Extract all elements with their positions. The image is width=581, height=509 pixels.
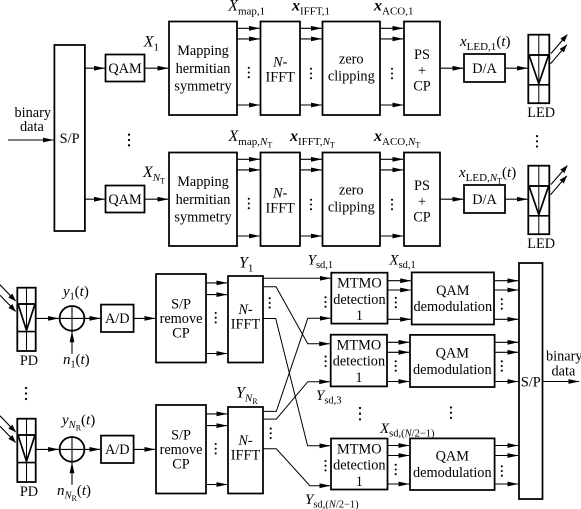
svg-text:CP: CP xyxy=(413,79,431,95)
svg-text:symmetry: symmetry xyxy=(174,210,232,226)
label N-IFFT TX 2 xyxy=(265,185,295,216)
dots N-IFFT2 outputs xyxy=(270,428,272,440)
block S/P serial-parallel TX xyxy=(54,45,85,231)
svg-text:A/D: A/D xyxy=(105,311,130,327)
label Mapping 2 xyxy=(174,174,232,225)
label N-IFFT TX 1 xyxy=(265,54,295,85)
block MTMO detection 1 a xyxy=(331,273,387,324)
wire S/P-removeCP1 to N-IFFT1 line 3 xyxy=(206,353,227,355)
block QAM demodulation 3 xyxy=(410,438,495,490)
svg-text:N-: N- xyxy=(237,302,253,318)
svg-text:detection: detection xyxy=(333,458,385,474)
wire zero-clipping2 to PS+CP2 line 1 xyxy=(380,158,403,160)
wire IFFT2 to zero-clipping2 line 1 xyxy=(300,158,322,160)
wire zero-clipping1 to PS+CP1 line 3 xyxy=(380,104,403,106)
label QAM demod 1 xyxy=(413,283,492,315)
dots MTMO-c outputs xyxy=(395,464,397,476)
wire QAM-demod2 to S/P-RX line 2 xyxy=(495,351,518,353)
wire N-IFFT2 out3 to MTMO-c in2 xyxy=(263,449,330,486)
dots QAM-demod3 outputs xyxy=(501,465,503,477)
svg-text:hermitian: hermitian xyxy=(176,192,231,208)
wire MTMO-b to QAM-demod2 line 1 xyxy=(387,341,409,343)
wire QAM1 to Mapping1 xyxy=(145,67,169,69)
wire binary data to S/P xyxy=(8,139,54,141)
wire S/P-removeCP1 to N-IFFT1 line 2 xyxy=(206,294,227,296)
dots between MTMO-b and MTMO-c xyxy=(359,407,361,421)
svg-text:LED: LED xyxy=(527,105,555,121)
LED symbol LED 2 xyxy=(528,166,549,235)
wire LED1 light ray 2 xyxy=(551,45,567,64)
dots QAM-demod1 outputs xyxy=(501,298,503,310)
dots between Mapping1 and IFFT1 xyxy=(248,67,250,78)
block D/A converter 1 xyxy=(464,54,505,82)
svg-text:MTMO: MTMO xyxy=(337,337,381,353)
wire S/P-RX to binary data out xyxy=(543,381,580,383)
wire QAM-demod2 to S/P-RX line 3 xyxy=(495,381,518,383)
block N-IFFT RX 2 xyxy=(228,407,263,494)
svg-text:binary: binary xyxy=(546,349,581,365)
wire MTMO-c to QAM-demod3 line 2 xyxy=(388,455,410,457)
wire N-IFFT1 out3 to MTMO-c in1 xyxy=(264,319,331,446)
wire QAM2 to Mapping2 xyxy=(145,198,169,200)
svg-text:PS: PS xyxy=(414,178,430,194)
block QAM modulator 1 xyxy=(106,55,145,82)
wire N-IFFT2 out2 to MTMO-b in2 xyxy=(263,382,329,419)
block zero clipping 1 xyxy=(323,22,381,116)
svg-text:IFFT: IFFT xyxy=(265,69,295,85)
label zero clipping 1 xyxy=(328,52,375,85)
wire IFFT2 to zero-clipping2 line 3 xyxy=(300,235,322,237)
dots between Mapping2 and IFFT2 xyxy=(248,198,250,210)
wire N-IFFT2 out1 to MTMO-a in2 xyxy=(263,318,330,411)
label A/D 2 xyxy=(105,442,130,458)
dots MTMO-b inputs xyxy=(325,356,327,368)
svg-text:+: + xyxy=(418,63,426,79)
dots MTMO-b outputs xyxy=(395,360,397,372)
dots MTMO-a inputs xyxy=(324,296,326,308)
svg-text:PD: PD xyxy=(20,353,38,369)
svg-text:S/P: S/P xyxy=(171,297,191,313)
svg-text:1: 1 xyxy=(356,308,363,324)
wire QAM-demod1 to S/P-RX line 2 xyxy=(494,289,518,291)
dots between PD chains xyxy=(25,387,27,400)
wire Mapping2 to IFFT2 line 3 xyxy=(237,235,260,237)
svg-text:QAM: QAM xyxy=(436,449,470,465)
svg-text:S/P: S/P xyxy=(171,428,191,444)
svg-text:demodulation: demodulation xyxy=(413,299,492,315)
label PS+CP 2 xyxy=(413,178,431,226)
svg-text:QAM: QAM xyxy=(436,345,470,361)
svg-text:CP: CP xyxy=(413,210,431,226)
svg-text:+: + xyxy=(418,194,426,210)
LED symbol LED 1 xyxy=(528,35,549,104)
wire QAM-demod3 to S/P-RX line 1 xyxy=(495,445,518,447)
block S/P parallel-serial RX xyxy=(519,263,543,499)
svg-text:PS: PS xyxy=(414,47,430,63)
svg-text:IFFT: IFFT xyxy=(231,448,261,464)
wire light ray into PD1 b xyxy=(0,295,16,311)
block Mapping hermitian symmetry 1 xyxy=(169,22,237,116)
svg-text:QAM: QAM xyxy=(436,283,470,299)
label MTMO a xyxy=(333,276,385,324)
svg-text:N-: N- xyxy=(237,433,253,449)
svg-text:y1(t): y1(t) xyxy=(61,284,89,303)
wire S/P to QAM2 xyxy=(85,198,105,200)
wire light ray into PD2 b xyxy=(0,426,16,442)
label S/P TX xyxy=(60,131,80,147)
wire zero-clipping1 to PS+CP1 line 1 xyxy=(380,27,403,29)
dots between S/P-removeCP2 and N-IFFT2 xyxy=(215,443,217,455)
wire Mapping1 to IFFT1 line 1 xyxy=(237,27,260,29)
wire IFFT2 to zero-clipping2 line 2 xyxy=(300,169,322,171)
wire IFFT1 to zero-clipping1 line 2 xyxy=(300,38,322,40)
wire S/P to QAM1 xyxy=(85,67,105,69)
svg-text:CP: CP xyxy=(172,326,190,342)
block QAM modulator 2 xyxy=(106,186,145,213)
block D/A converter 2 xyxy=(464,185,505,213)
wire S/P-removeCP2 to N-IFFT2 line 1 xyxy=(206,413,227,415)
wire D/A1 to LED1 xyxy=(505,67,527,69)
wire zero-clipping1 to PS+CP1 line 2 xyxy=(380,38,403,40)
wire MTMO-b to QAM-demod2 line 2 xyxy=(387,351,409,353)
label LED 2 name xyxy=(527,236,555,252)
wire LED2 light ray 2 xyxy=(551,176,567,195)
dots between zero-clipping2 and PS+CP2 xyxy=(391,199,393,211)
wire PD2 to sum2 xyxy=(36,448,59,450)
wire sum1 to A/D1 xyxy=(84,317,100,319)
svg-text:symmetry: symmetry xyxy=(174,79,232,95)
svg-text:data: data xyxy=(552,364,576,380)
svg-text:Mapping: Mapping xyxy=(177,43,229,59)
dots between S/P-removeCP1 and N-IFFT1 xyxy=(215,312,217,324)
label S/P remove CP 1 xyxy=(160,297,203,342)
svg-text:Mapping: Mapping xyxy=(177,174,229,190)
svg-text:detection: detection xyxy=(333,354,385,370)
svg-text:D/A: D/A xyxy=(472,192,497,208)
label A/D 1 xyxy=(105,311,130,327)
svg-text:demodulation: demodulation xyxy=(413,362,492,378)
svg-text:PD: PD xyxy=(20,484,38,500)
dots between zero-clipping1 and PS+CP1 xyxy=(391,68,393,79)
svg-text:1: 1 xyxy=(355,370,362,386)
block QAM demodulation 1 xyxy=(412,272,494,324)
wire Mapping1 to IFFT1 line 3 xyxy=(237,104,260,106)
label Mapping 1 xyxy=(174,43,232,94)
label D/A 1 xyxy=(472,61,497,77)
block QAM demodulation 2 xyxy=(410,335,495,387)
wire Mapping1 to IFFT1 line 2 xyxy=(237,38,260,40)
svg-text:IFFT: IFFT xyxy=(265,200,295,216)
wire PS+CP1 to D/A1 xyxy=(440,67,463,69)
svg-text:zero: zero xyxy=(339,52,364,68)
wire MTMO-c to QAM-demod3 line 1 xyxy=(388,445,410,447)
label N-IFFT RX 1 xyxy=(231,302,261,333)
block PS+CP 2 xyxy=(404,153,440,247)
wire zero-clipping2 to PS+CP2 line 3 xyxy=(380,235,403,237)
svg-text:S/P: S/P xyxy=(521,374,541,390)
svg-text:clipping: clipping xyxy=(328,69,375,85)
label QAM 1 xyxy=(108,61,142,77)
label MTMO b xyxy=(333,337,385,386)
summing node sum 1 xyxy=(60,306,85,331)
wire MTMO-a to QAM-demod1 line 3 xyxy=(388,318,411,320)
wire N-IFFT1 out1 to MTMO-a in1 xyxy=(264,277,331,279)
svg-text:zero: zero xyxy=(339,183,364,199)
block N-IFFT TX 1 xyxy=(261,22,301,116)
dots between LED1 and LED2 xyxy=(536,135,538,148)
wire Mapping2 to IFFT2 line 1 xyxy=(237,158,260,160)
svg-text:LED: LED xyxy=(527,236,555,252)
block MTMO detection 1 c xyxy=(331,439,388,490)
block S/P remove CP 1 xyxy=(156,274,206,363)
dots between IFFT2 and zero-clipping2 xyxy=(310,199,312,211)
svg-text:MTMO: MTMO xyxy=(337,442,381,458)
block Mapping hermitian symmetry 2 xyxy=(169,153,237,247)
label zero clipping 2 xyxy=(328,183,375,216)
label LED 1 name xyxy=(527,105,555,121)
label PD 2 name xyxy=(20,484,38,500)
block zero clipping 2 xyxy=(323,153,381,247)
wire zero-clipping2 to PS+CP2 line 2 xyxy=(380,169,403,171)
photodiode symbol PD 1 xyxy=(17,288,35,351)
label PD 1 name xyxy=(20,353,38,369)
block N-IFFT RX 1 xyxy=(228,276,263,363)
dots MTMO-a outputs xyxy=(395,297,397,309)
wire S/P-removeCP2 to N-IFFT2 line 3 xyxy=(206,484,227,486)
wire noise n1 into sum1 xyxy=(71,332,73,354)
block A/D converter 1 xyxy=(101,305,134,332)
wire IFFT1 to zero-clipping1 line 1 xyxy=(300,27,322,29)
summing node sum 2 xyxy=(60,437,85,462)
svg-text:detection: detection xyxy=(333,292,385,308)
wire D/A2 to LED2 xyxy=(505,198,527,200)
dots QAM-demod2 outputs xyxy=(501,360,503,372)
block N-IFFT TX 2 xyxy=(261,153,301,247)
label QAM demod 2 xyxy=(413,345,492,377)
block A/D converter 2 xyxy=(101,436,134,463)
label PS+CP 1 xyxy=(413,47,431,95)
dots N-IFFT1 outputs xyxy=(269,297,271,309)
wire N-IFFT1 out2 to MTMO-b in1 xyxy=(264,287,330,344)
label S/P RX xyxy=(521,374,541,390)
svg-text:QAM: QAM xyxy=(108,61,142,77)
wire IFFT1 to zero-clipping1 line 3 xyxy=(300,104,322,106)
block MTMO detection 1 b xyxy=(331,335,387,387)
svg-text:1: 1 xyxy=(356,474,363,490)
block S/P remove CP 2 xyxy=(156,405,206,494)
wire S/P-removeCP2 to N-IFFT2 line 2 xyxy=(206,425,227,427)
wire QAM-demod2 to S/P-RX line 1 xyxy=(495,341,518,343)
block PS+CP 1 xyxy=(404,22,440,116)
svg-text:data: data xyxy=(20,119,44,135)
wire PS+CP2 to D/A2 xyxy=(440,198,463,200)
svg-text:n1(t): n1(t) xyxy=(63,352,90,371)
wire QAM-demod3 to S/P-RX line 3 xyxy=(495,483,518,485)
wire QAM-demod1 to S/P-RX line 1 xyxy=(494,280,518,282)
label N-IFFT RX 2 xyxy=(231,433,261,464)
dots between IFFT1 and zero-clipping1 xyxy=(310,68,312,79)
svg-text:A/D: A/D xyxy=(105,442,130,458)
photodiode symbol PD 2 xyxy=(17,419,35,482)
label S/P remove CP 2 xyxy=(160,428,203,473)
svg-text:N-: N- xyxy=(272,185,288,201)
wire MTMO-c to QAM-demod3 line 3 xyxy=(388,483,410,485)
wire sum2 to A/D2 xyxy=(84,448,100,450)
svg-text:IFFT: IFFT xyxy=(231,317,261,333)
dots between QAM chains xyxy=(128,134,130,147)
wire QAM-demod1 to S/P-RX line 3 xyxy=(494,318,518,320)
label QAM demod 3 xyxy=(413,449,492,481)
wire noise n2 into sum2 xyxy=(71,463,73,485)
wire LED1 light ray 1 xyxy=(551,35,567,54)
wire light ray into PD2 a xyxy=(0,416,16,432)
wire Mapping2 to IFFT2 line 2 xyxy=(237,169,260,171)
svg-text:CP: CP xyxy=(172,457,190,473)
wire QAM-demod3 to S/P-RX line 2 xyxy=(495,455,518,457)
dots between QAM-demod2 and QAM-demod3 xyxy=(450,406,452,419)
svg-text:hermitian: hermitian xyxy=(176,61,231,77)
wire MTMO-a to QAM-demod1 line 2 xyxy=(388,289,411,291)
label MTMO c xyxy=(333,442,385,490)
wire A/D1 to S/P-removeCP1 xyxy=(134,317,156,319)
wire MTMO-a to QAM-demod1 line 1 xyxy=(388,280,411,282)
svg-text:S/P: S/P xyxy=(60,131,80,147)
svg-text:QAM: QAM xyxy=(108,192,142,208)
wire S/P-removeCP1 to N-IFFT1 line 1 xyxy=(206,282,227,284)
svg-text:D/A: D/A xyxy=(472,61,497,77)
svg-text:N-: N- xyxy=(272,54,288,70)
dots MTMO-c inputs xyxy=(324,460,326,472)
svg-text:MTMO: MTMO xyxy=(337,276,381,292)
wire MTMO-b to QAM-demod2 line 3 xyxy=(387,381,409,383)
svg-text:clipping: clipping xyxy=(328,200,375,216)
label QAM 2 xyxy=(108,192,142,208)
wire LED2 light ray 1 xyxy=(551,166,567,185)
wire light ray into PD1 a xyxy=(0,285,16,301)
wire PD1 to sum1 xyxy=(36,317,59,319)
wire A/D2 to S/P-removeCP2 xyxy=(134,448,156,450)
label D/A 2 xyxy=(472,192,497,208)
svg-text:demodulation: demodulation xyxy=(413,465,492,481)
